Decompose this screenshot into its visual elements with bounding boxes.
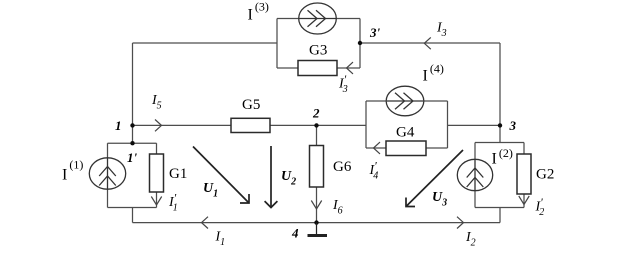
svg-text:I1: I1 xyxy=(215,230,226,249)
current arrow I'1 xyxy=(151,191,177,214)
svg-text:I'4: I'4 xyxy=(369,159,379,182)
svg-text:I'3: I'3 xyxy=(338,72,348,95)
wire riser node1 to top xyxy=(132,43,134,143)
current arrow I2 bus xyxy=(457,217,476,249)
current arrow I1 bus xyxy=(202,217,226,248)
wire I1 source branch xyxy=(107,143,109,207)
current source I(2) xyxy=(457,159,492,190)
wire G4 block top branch xyxy=(366,100,448,102)
node 2 xyxy=(312,106,320,128)
svg-text:G4: G4 xyxy=(396,125,415,141)
wire node 3' to right corner xyxy=(360,42,500,44)
svg-text:4: 4 xyxy=(291,226,299,241)
current arrow I'2 xyxy=(519,195,544,218)
ground xyxy=(308,223,328,236)
svg-text:I'2: I'2 xyxy=(535,195,545,218)
voltage arrow U2 xyxy=(265,146,297,208)
current arrow I5 xyxy=(151,93,162,131)
wire I2 source branch xyxy=(474,143,476,208)
svg-text:I5: I5 xyxy=(151,93,162,112)
node 3 xyxy=(498,118,517,133)
wire I2 block top xyxy=(475,142,524,144)
wire top left horizontal xyxy=(133,42,278,44)
svg-text:2: 2 xyxy=(312,106,320,121)
current source I(4) xyxy=(386,86,424,116)
current arrow I3 xyxy=(424,21,446,50)
node 1' junction xyxy=(127,141,138,165)
wire middle node1 to G4 xyxy=(133,124,367,126)
wire I1 block top xyxy=(108,142,157,144)
svg-text:G5: G5 xyxy=(242,97,260,113)
resistor G1 xyxy=(150,154,188,192)
svg-text:3: 3 xyxy=(509,118,517,133)
wire G3 block top branch xyxy=(277,18,360,20)
wire G3 block left vertical xyxy=(276,19,278,69)
wire I1 block bottom xyxy=(108,207,157,209)
wire bottom bus xyxy=(133,222,501,224)
svg-text:G1: G1 xyxy=(169,166,187,182)
voltage arrow U3 xyxy=(406,150,463,209)
wire right drop to node 3 xyxy=(499,43,501,125)
current source I(1) xyxy=(89,158,125,189)
node 4 xyxy=(291,220,319,240)
wire G4 block bottom branch xyxy=(366,147,448,149)
wire G3 block right vertical xyxy=(359,19,361,69)
wire node 2 drop xyxy=(316,125,318,145)
svg-text:I3: I3 xyxy=(436,21,447,40)
wire G4 to node 3 xyxy=(448,124,501,126)
wire node 3 drop xyxy=(499,125,501,142)
svg-text:I(2): I(2) xyxy=(492,146,513,168)
svg-text:1': 1' xyxy=(127,150,138,165)
wire G4 block right vertical xyxy=(447,101,449,148)
resistor G3 xyxy=(298,42,337,75)
wire I1 riser to bus xyxy=(132,208,134,223)
svg-text:U3: U3 xyxy=(432,190,447,209)
resistor G5 xyxy=(231,97,270,133)
wire G1 branch upper xyxy=(156,143,158,154)
svg-text:U1: U1 xyxy=(203,181,218,200)
svg-text:I(1): I(1) xyxy=(62,158,83,184)
wire G1 branch lower xyxy=(156,192,158,208)
wire G3 block bottom branch xyxy=(277,67,360,69)
svg-text:G2: G2 xyxy=(536,167,554,183)
svg-text:I6: I6 xyxy=(332,198,343,217)
svg-text:I(3): I(3) xyxy=(248,0,269,24)
svg-text:1: 1 xyxy=(115,118,122,133)
resistor G4 xyxy=(386,125,426,156)
node 1 xyxy=(115,118,135,133)
resistor G2 xyxy=(517,154,554,194)
svg-text:G3: G3 xyxy=(309,42,327,58)
resistor G6 xyxy=(310,146,352,188)
svg-text:G6: G6 xyxy=(333,159,352,175)
wire G2 branch upper xyxy=(523,143,525,155)
voltage arrow U1 xyxy=(193,147,249,204)
svg-text:I'1: I'1 xyxy=(168,191,178,214)
wire G2 branch lower xyxy=(523,194,525,208)
current source I(3) xyxy=(299,3,337,34)
wire G4 block left vertical xyxy=(365,101,367,148)
wire I2 block bottom xyxy=(475,207,524,209)
current arrow I6 xyxy=(311,198,342,217)
svg-text:U2: U2 xyxy=(281,169,296,188)
svg-text:3': 3' xyxy=(369,25,381,40)
current arrow I'4 xyxy=(369,142,381,181)
svg-text:I2: I2 xyxy=(465,230,476,249)
current arrow I'3 xyxy=(338,62,353,95)
wire G6 lower xyxy=(316,187,318,223)
wire I2 riser to bus xyxy=(499,208,501,223)
node 3' xyxy=(358,25,381,45)
svg-text:I(4): I(4) xyxy=(423,62,444,85)
